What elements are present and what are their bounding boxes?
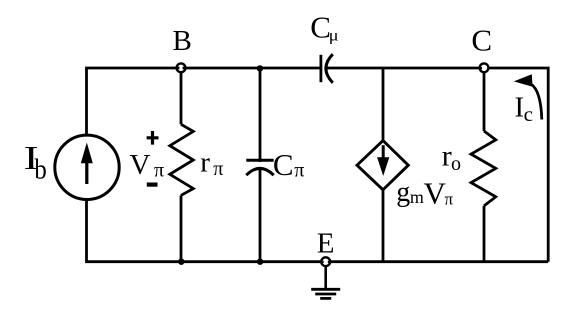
svg-text:C: C bbox=[273, 147, 294, 182]
svg-text:V: V bbox=[130, 149, 151, 181]
svg-text:π: π bbox=[154, 160, 164, 182]
svg-text:c: c bbox=[524, 102, 533, 126]
svg-text:C: C bbox=[471, 23, 492, 58]
capacitor C_mu straight plate bbox=[319, 55, 322, 82]
wire: left vertical bottom + bottom rail bbox=[87, 199, 549, 262]
svg-text:o: o bbox=[451, 153, 461, 175]
wire: left vertical top + top rail left segment bbox=[87, 68, 321, 136]
wire nub at node C bbox=[480, 67, 483, 69]
svg-text:C: C bbox=[310, 10, 331, 45]
svg-text:b: b bbox=[34, 155, 46, 186]
svg-text:g: g bbox=[396, 177, 410, 208]
wire nubs at node E bbox=[321, 261, 330, 263]
I_c curved arrow bbox=[531, 84, 542, 120]
ground bar 2 bbox=[315, 293, 336, 296]
node E terminal circle bbox=[321, 257, 330, 266]
svg-text:π: π bbox=[213, 158, 223, 180]
wire: dependent source branch lower bbox=[382, 190, 385, 262]
node C terminal circle bbox=[480, 63, 489, 72]
current source I1 arrow bbox=[85, 160, 88, 184]
svg-text:π: π bbox=[294, 160, 304, 182]
capacitor C_mu curved plate bbox=[326, 54, 333, 83]
wire: r_o branch upper bbox=[483, 73, 486, 132]
svg-text:B: B bbox=[173, 25, 192, 57]
minus sign bbox=[147, 183, 158, 187]
resistor r_pi zigzag bbox=[170, 124, 194, 195]
wire: r_pi branch upper bbox=[180, 71, 183, 124]
svg-text:r: r bbox=[200, 147, 210, 179]
wire nubs at node B bbox=[176, 67, 185, 70]
svg-text:I: I bbox=[515, 91, 525, 123]
node B terminal circle bbox=[177, 63, 186, 72]
ground bar 1 bbox=[311, 288, 340, 291]
svg-text:V: V bbox=[424, 176, 447, 211]
dependent source G1 arrow bbox=[382, 145, 385, 160]
wire: C_pi branch upper bbox=[259, 68, 262, 162]
ground stub wire bbox=[324, 266, 327, 289]
wire: r_o branch lower bbox=[483, 206, 486, 262]
capacitor C_pi curved plate bbox=[246, 168, 273, 175]
svg-text:m: m bbox=[410, 187, 424, 207]
wire: top rail right segment + right vertical bbox=[327, 68, 549, 262]
svg-text:π: π bbox=[445, 189, 454, 208]
wire: r_pi branch lower bbox=[180, 195, 183, 261]
ground bar 3 bbox=[320, 297, 331, 300]
junction dot r_pi bottom bbox=[178, 259, 184, 265]
svg-text:μ: μ bbox=[329, 28, 339, 45]
resistor r_o zigzag bbox=[471, 131, 496, 206]
capacitor C_pi straight plate bbox=[246, 159, 273, 162]
current source I1 circle bbox=[55, 135, 119, 199]
wire: dependent source branch upper bbox=[382, 68, 385, 141]
plus sign bbox=[147, 131, 159, 145]
wire: C_pi branch lower bbox=[259, 169, 262, 262]
junction dot C_pi top bbox=[257, 65, 263, 71]
svg-text:E: E bbox=[317, 228, 335, 260]
dependent source G1 diamond bbox=[357, 141, 408, 190]
junction dot C_pi bottom bbox=[257, 259, 263, 265]
